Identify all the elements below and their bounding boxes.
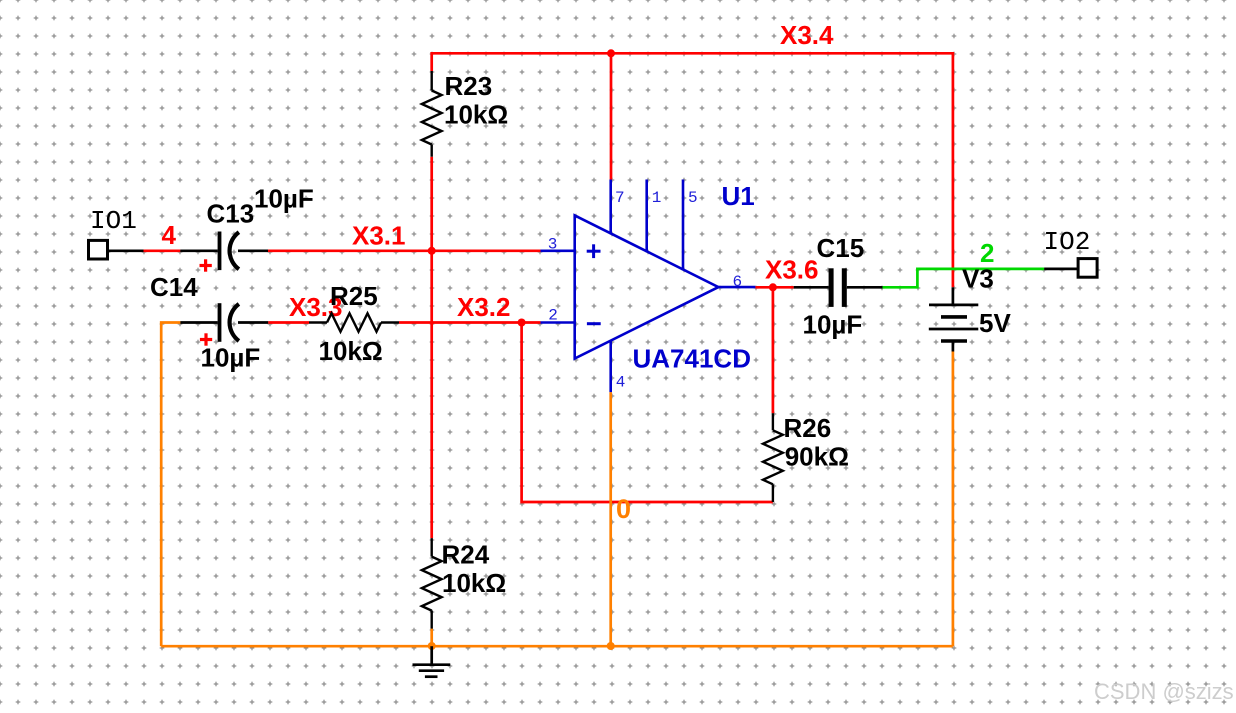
svg-text:5: 5 <box>688 189 698 207</box>
svg-text:C14: C14 <box>150 272 198 302</box>
wire: C13 right pin <box>238 249 268 252</box>
svg-text:CSDN @szizs: CSDN @szizs <box>1094 679 1234 704</box>
battery V3 <box>929 287 979 351</box>
wire: net 0 stub below R24 <box>430 629 433 647</box>
junction net 0 at pin4 drop <box>607 642 615 650</box>
wire: net 2 (C15 to IO2, green) <box>883 269 1045 287</box>
svg-text:UA741CD: UA741CD <box>633 344 752 374</box>
wire: net 0 right vertical to V3 minus <box>952 352 955 647</box>
capacitor C13 <box>200 232 239 272</box>
svg-text:10µF: 10µF <box>201 343 261 373</box>
svg-text:10kΩ: 10kΩ <box>319 336 383 366</box>
resistor R26 <box>763 413 783 502</box>
wire: C14 left pin <box>180 321 217 324</box>
wire: IO1 pin <box>108 249 144 252</box>
svg-text:2: 2 <box>548 307 558 325</box>
svg-text:R23: R23 <box>445 71 493 101</box>
wire: C15 left pin <box>794 286 829 289</box>
wire: net X3.3 segment (C14 to R25) <box>268 321 309 324</box>
wire: net X3.2 (R25 to op-amp pin 2) <box>399 321 541 324</box>
svg-text:1: 1 <box>652 189 662 207</box>
svg-text:R24: R24 <box>442 540 490 570</box>
svg-text:X3.4: X3.4 <box>780 20 834 50</box>
svg-text:10kΩ: 10kΩ <box>444 100 508 130</box>
svg-text:X3.1: X3.1 <box>352 221 406 251</box>
svg-text:10kΩ: 10kΩ <box>442 568 506 598</box>
junction on net X3.4 <box>607 49 615 57</box>
svg-text:V3: V3 <box>962 264 994 294</box>
svg-text:X3.2: X3.2 <box>457 292 511 322</box>
wire: net X3.1 vertical (R23 bottom to R24 top) <box>430 157 433 539</box>
svg-text:R26: R26 <box>784 413 832 443</box>
svg-text:X3.6: X3.6 <box>765 255 819 285</box>
svg-text:7: 7 <box>615 189 625 207</box>
svg-text:0: 0 <box>616 494 631 524</box>
svg-text:5V: 5V <box>979 308 1011 338</box>
junction on net X3.1 <box>428 247 436 255</box>
svg-text:90kΩ: 90kΩ <box>785 442 849 472</box>
wire: C15 right pin <box>847 286 883 289</box>
wire: net X3.1 horizontal to op-amp pin 3 <box>268 249 541 252</box>
svg-text:3: 3 <box>548 236 558 254</box>
wire: net 4 segment (IO1 to C13) <box>144 249 181 252</box>
junction on net X3.6 <box>769 283 777 291</box>
svg-text:U1: U1 <box>722 181 755 211</box>
resistor R25 <box>309 313 399 331</box>
svg-text:4: 4 <box>616 374 626 392</box>
junction on net X3.2 <box>518 319 526 327</box>
wire: IO2 pin <box>1044 268 1078 271</box>
svg-text:R25: R25 <box>330 281 378 311</box>
wire: C13 left pin <box>180 249 217 252</box>
resistor R24 <box>422 538 442 628</box>
svg-text:10µF: 10µF <box>803 310 863 340</box>
wire: net X3.4 drop to op-amp pin 7 <box>610 53 613 179</box>
resistor R23 <box>422 71 442 157</box>
svg-text:IO2: IO2 <box>1044 227 1091 257</box>
wire: net 0 left vertical to C14 <box>161 323 180 647</box>
capacitor C15 <box>829 268 847 307</box>
wire: net 0 bottom horizontal (orange) <box>161 645 953 648</box>
svg-text:4: 4 <box>162 220 177 250</box>
svg-text:6: 6 <box>733 273 743 291</box>
wire: C14 right pin <box>238 321 268 324</box>
capacitor C14 <box>200 303 239 346</box>
wire: net X3.6 (op-amp pin 6 to C15) <box>755 286 793 289</box>
connector IO2 <box>1078 259 1097 278</box>
wire: net X3.4 top horizontal <box>432 53 953 287</box>
connector IO1 <box>89 240 108 259</box>
wire: net 0 from op-amp pin 4 <box>609 392 612 646</box>
wire: net X3.6 down to R26 <box>772 287 775 413</box>
ground <box>413 646 451 677</box>
svg-text:IO1: IO1 <box>90 206 137 236</box>
svg-text:C13: C13 <box>207 199 255 229</box>
svg-text:10µF: 10µF <box>254 184 314 214</box>
svg-text:C15: C15 <box>817 233 865 263</box>
op-amp U1 <box>541 180 756 393</box>
wire: net X3.2 feedback down and right <box>522 323 773 503</box>
junction net 0 at ground <box>428 642 436 650</box>
